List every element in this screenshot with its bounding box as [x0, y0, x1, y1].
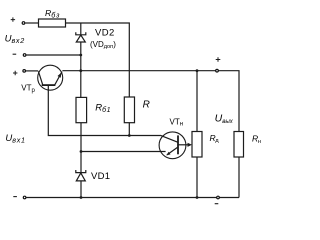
resistor R_b1	[76, 97, 87, 122]
wire: U_vx1 plus terminal to VT_r collector	[26, 70, 38, 72]
transistor VT_r (regulating, NPN)	[38, 65, 63, 90]
terminal output plus	[216, 69, 219, 72]
svg-text:Rбз: Rбз	[45, 8, 60, 19]
polarity mark: plus of U_vx1	[13, 71, 17, 75]
resistor R_d potentiometer body	[192, 132, 202, 158]
resistor R	[124, 97, 134, 123]
wire: U_vx2 plus terminal to R_bz	[25, 22, 38, 24]
wire: R_s divider rail bottom	[196, 157, 198, 198]
junction node: R bottom / base wire	[128, 134, 131, 137]
polarity mark: minus of U_vx2	[13, 53, 17, 55]
junction node: R_s rail / bottom rail	[196, 196, 199, 199]
wiper of potentiometer R_d from VT_n base	[178, 144, 189, 146]
wire: R bottom lead to base wire	[128, 123, 130, 136]
wire: R_bz to top-right corner, down rail B to resistor R	[66, 23, 130, 97]
zener diode VD1	[76, 170, 86, 181]
junction node: R_b1 bottom / VD1 cathode / wire 2	[80, 150, 83, 153]
wire: VT_r base lead down and right to VT_n collector (wire 1)	[48, 85, 160, 135]
wire: rail A top lead into VD2	[80, 23, 82, 35]
wire: rail A from R_b1 down through wire2 junction to VD1	[80, 123, 82, 173]
polarity mark: minus of U_vx1	[13, 196, 17, 198]
wire: R_n bottom lead to bottom-right corner	[238, 157, 240, 198]
junction node: VD2 anode / U_vx2 minus	[79, 54, 82, 57]
svg-text:VD2: VD2	[95, 28, 115, 39]
wire: bottom minus rail	[26, 197, 239, 199]
svg-text:Uвх1: Uвх1	[5, 133, 25, 144]
svg-text:R: R	[143, 99, 150, 110]
junction node: rail A / output rail	[79, 69, 82, 72]
zener diode VD2	[76, 32, 86, 42]
svg-text:(VDдоп): (VDдоп)	[90, 40, 116, 50]
polarity mark: plus of output	[216, 57, 221, 62]
terminal U_vx2 plus	[22, 22, 25, 25]
svg-text:VD1: VD1	[91, 171, 110, 182]
wire: emitter output rail from VT_r to right corner, down to R_n	[62, 71, 239, 132]
wire: rail A VD2 anode to minus-wire junction and output rail	[80, 42, 82, 97]
wire: zener node to VT_n emitter (wire 2)	[81, 151, 166, 153]
wire: rail A VD1 anode to bottom rail	[80, 181, 82, 198]
terminal output minus	[217, 196, 220, 199]
transistor VT_n (error amplifier, NPN)	[159, 132, 192, 159]
junction node: rail A / bottom rail	[80, 196, 83, 199]
terminal U_vx2 minus	[23, 54, 26, 57]
polarity mark: minus of output	[215, 203, 219, 205]
polarity mark: plus of U_vx2	[11, 17, 15, 21]
terminal U_vx1 minus	[23, 196, 26, 199]
wire: U_vx2 minus terminal to rail A	[26, 54, 80, 56]
resistor R_bz	[39, 19, 66, 27]
svg-text:Uвх2: Uвх2	[5, 34, 25, 45]
wire: R_s divider rail top	[196, 71, 198, 132]
resistor R_n	[234, 132, 244, 158]
junction node: R_s rail / output rail	[196, 69, 199, 72]
terminal U_vx1 plus	[23, 70, 26, 73]
